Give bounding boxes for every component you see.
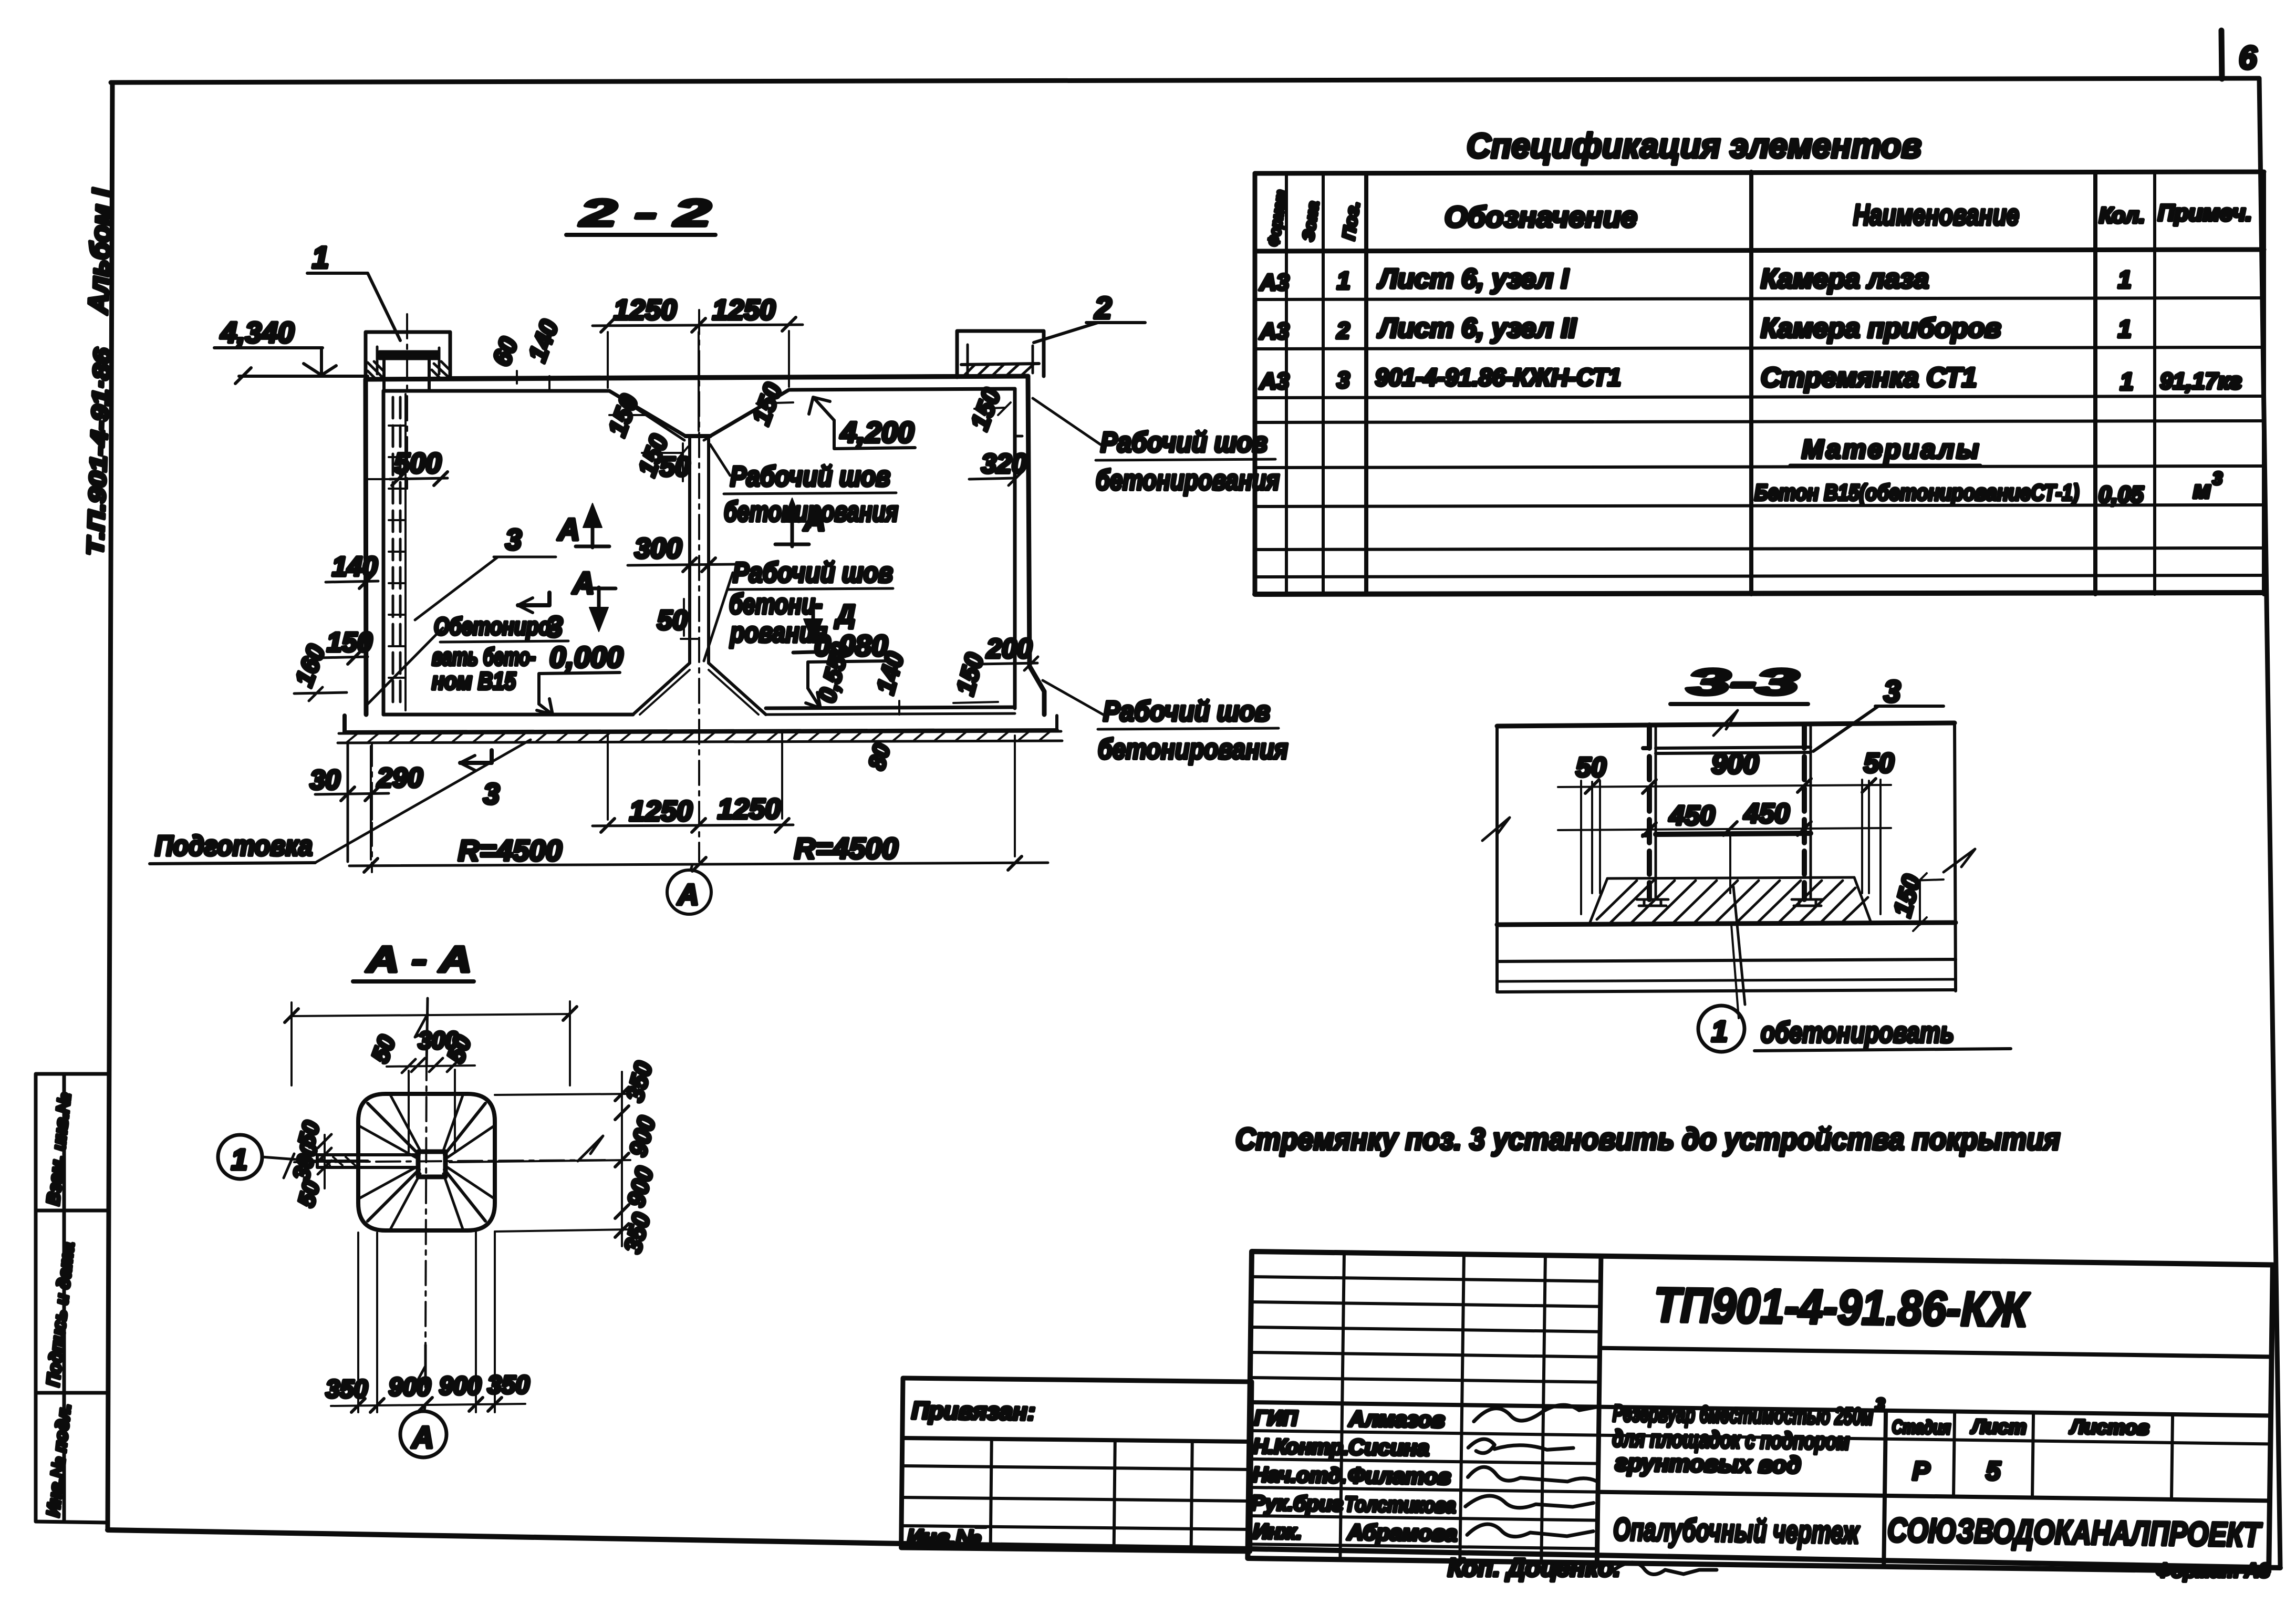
svg-text:Толстикова: Толстикова xyxy=(1344,1493,1456,1517)
svg-text:200: 200 xyxy=(986,634,1032,664)
break mark top xyxy=(1713,710,1738,736)
svg-text:900: 900 xyxy=(624,1113,660,1160)
svg-text:901-4-91.86-КЖН-СТ1: 901-4-91.86-КЖН-СТ1 xyxy=(1375,364,1621,391)
title block vertical lines xyxy=(1340,1253,1545,1562)
svg-text:0,05: 0,05 xyxy=(2098,482,2144,508)
svg-text:160: 160 xyxy=(290,641,331,690)
svg-text:3-3: 3-3 xyxy=(1687,661,1799,702)
roof slab top line xyxy=(366,376,1028,379)
extension verticals left/right xyxy=(1581,780,1881,914)
svg-text:обетонировать: обетонировать xyxy=(1761,1016,1954,1049)
svg-text:3: 3 xyxy=(1884,675,1900,709)
svg-text:1250: 1250 xyxy=(712,294,775,326)
svg-text:R=4500: R=4500 xyxy=(794,832,898,865)
svg-text:Инж.: Инж. xyxy=(1253,1520,1302,1544)
svg-text:1: 1 xyxy=(2118,315,2132,343)
left wall inner xyxy=(382,391,386,715)
svg-text:Камера приборов: Камера приборов xyxy=(1761,313,2001,344)
svg-text:50: 50 xyxy=(366,1031,401,1066)
svg-text:900: 900 xyxy=(439,1372,481,1400)
svg-text:900: 900 xyxy=(621,1164,658,1210)
ladder protruding in plan xyxy=(317,1155,418,1167)
svg-text:1250: 1250 xyxy=(614,294,677,326)
svg-text:А: А xyxy=(557,513,580,547)
title block outer frame xyxy=(1248,1251,2272,1571)
left manhole (камера лаза) xyxy=(366,332,450,379)
callout circle 1 A-A xyxy=(218,1135,262,1179)
svg-text:150: 150 xyxy=(951,650,989,698)
svg-text:А: А xyxy=(572,566,595,601)
svg-text:рования: рования xyxy=(729,617,827,648)
svg-text:А3: А3 xyxy=(1259,368,1289,394)
wall left edge xyxy=(1495,726,1499,992)
svg-text:3: 3 xyxy=(505,523,522,556)
svg-text:Обетониро-: Обетониро- xyxy=(434,613,557,640)
svg-text:Инв.№ подл.: Инв.№ подл. xyxy=(43,1403,75,1518)
svg-text:Лист: Лист xyxy=(1970,1416,2027,1439)
svg-text:Взам. инв.№: Взам. инв.№ xyxy=(43,1092,75,1206)
svg-text:1250: 1250 xyxy=(718,793,781,825)
break mark right xyxy=(1944,849,1975,872)
svg-text:м: м xyxy=(2193,476,2211,503)
svg-text:3: 3 xyxy=(1875,1395,1885,1414)
right wall inner xyxy=(1013,389,1017,708)
svg-text:вать бето-: вать бето- xyxy=(432,643,536,670)
svg-text:А3: А3 xyxy=(1259,270,1289,295)
svg-text:Рабочий шов: Рабочий шов xyxy=(730,461,890,492)
svg-text:Сисина: Сисина xyxy=(1348,1434,1429,1460)
svg-text:Спецификация элементов: Спецификация элементов xyxy=(1467,126,1921,165)
svg-text:ТП901-4-91.86-КЖ: ТП901-4-91.86-КЖ xyxy=(1654,1278,2030,1337)
niche floor line xyxy=(1607,877,1854,878)
svg-text:Рабочий шов: Рабочий шов xyxy=(1100,427,1268,458)
svg-text:Н.Контр.: Н.Контр. xyxy=(1253,1435,1349,1459)
svg-text:Стадия: Стадия xyxy=(1892,1416,1951,1438)
svg-text:2 - 2: 2 - 2 xyxy=(579,192,711,234)
svg-text:1: 1 xyxy=(231,1143,247,1176)
svg-text:350: 350 xyxy=(618,1210,655,1256)
roof slab inner second line xyxy=(450,375,957,377)
ladder embedded in wall (стремянка СТ1) xyxy=(392,397,394,709)
svg-text:3: 3 xyxy=(1337,367,1349,393)
slab lower lines xyxy=(1497,959,1956,961)
svg-text:Наименование: Наименование xyxy=(1853,198,2019,231)
svg-text:Альбом I: Альбом I xyxy=(83,188,118,316)
column footing plan outline xyxy=(358,1094,495,1230)
bottom dim 350 900 900 350 xyxy=(331,1404,525,1406)
cell line under big code xyxy=(1600,1348,2272,1357)
svg-text:Алмазов: Алмазов xyxy=(1348,1406,1445,1432)
svg-text:Формат А3: Формат А3 xyxy=(2156,1560,2270,1582)
rung weld marks xyxy=(1643,748,1649,835)
svg-text:Подпись и дата: Подпись и дата xyxy=(43,1241,78,1388)
svg-text:150: 150 xyxy=(327,627,372,658)
svg-text:Зона: Зона xyxy=(1300,200,1322,242)
svg-text:Нач.отд.: Нач.отд. xyxy=(1252,1463,1347,1487)
svg-text:R=4500: R=4500 xyxy=(458,834,562,867)
datum circle A xyxy=(667,870,711,914)
svg-text:50: 50 xyxy=(1576,752,1606,783)
axis break flag bottom xyxy=(413,1345,425,1389)
svg-text:900: 900 xyxy=(389,1373,431,1401)
right vertical dim 350 900 900 350 xyxy=(621,1072,623,1246)
svg-text:Рабочий шов: Рабочий шов xyxy=(1103,696,1270,727)
svg-text:1: 1 xyxy=(2120,368,2134,395)
svg-text:60: 60 xyxy=(488,334,524,370)
ladder stringer left xyxy=(1647,725,1652,899)
prep layer (подготовка) xyxy=(338,731,1062,743)
svg-text:Лист 6, узел I: Лист 6, узел I xyxy=(1377,264,1570,294)
left manhole axis xyxy=(406,314,408,489)
hatch niche floor xyxy=(1597,881,1868,923)
frame border right xyxy=(2259,78,2280,1568)
svg-text:Листов: Листов xyxy=(2069,1416,2149,1439)
svg-text:А3: А3 xyxy=(1259,318,1289,344)
svg-text:30: 30 xyxy=(310,765,340,795)
title block staff row lines xyxy=(1250,1402,2271,1415)
svg-text:Лист 6, узел II: Лист 6, узел II xyxy=(1377,313,1577,344)
svg-text:3: 3 xyxy=(2212,469,2222,489)
svg-text:2: 2 xyxy=(1336,318,1350,344)
niche chamfers xyxy=(1589,877,1871,924)
floor line left chamber xyxy=(383,713,633,717)
svg-text:грунтовых вод: грунтовых вод xyxy=(1615,1449,1801,1478)
svg-text:А: А xyxy=(411,1421,434,1455)
svg-text:Поз.: Поз. xyxy=(1338,200,1363,241)
spec table grid xyxy=(1255,172,2264,594)
svg-text:350: 350 xyxy=(487,1371,529,1399)
svg-text:450: 450 xyxy=(1669,801,1715,831)
svg-text:50: 50 xyxy=(660,452,690,482)
svg-text:0,000: 0,000 xyxy=(549,640,623,674)
column base haunch xyxy=(633,663,766,715)
svg-text:1: 1 xyxy=(1711,1015,1728,1048)
svg-text:Рабочий шов: Рабочий шов xyxy=(733,557,893,588)
svg-text:4,200: 4,200 xyxy=(840,416,914,449)
svg-text:Абрамова: Абрамова xyxy=(1347,1519,1458,1546)
frame border top xyxy=(111,78,2259,82)
svg-text:Обозначение: Обозначение xyxy=(1445,200,1637,233)
ladder rung top xyxy=(1656,747,1811,753)
svg-text:А - А: А - А xyxy=(366,939,472,980)
svg-text:Филатов: Филатов xyxy=(1348,1463,1451,1489)
svg-text:Примеч.: Примеч. xyxy=(2158,200,2252,226)
page number tick xyxy=(2221,30,2222,79)
wall top face line xyxy=(1497,723,1955,726)
svg-text:ном В15: ном В15 xyxy=(432,667,516,695)
svg-text:Стремянка СТ1: Стремянка СТ1 xyxy=(1761,363,1977,393)
left edge cut line below slab xyxy=(347,743,349,862)
svg-text:Инв.№: Инв.№ xyxy=(907,1525,981,1550)
svg-text:3: 3 xyxy=(483,777,500,810)
centerline vertical xyxy=(425,1056,427,1345)
svg-text:Подготовка: Подготовка xyxy=(155,830,313,862)
frame border bottom xyxy=(108,1530,2280,1568)
svg-text:1: 1 xyxy=(2118,266,2132,293)
section cut 3 upper xyxy=(518,593,549,605)
svg-text:Стремянку поз. 3 установить д: Стремянку поз. 3 установить до устройств… xyxy=(1235,1122,2060,1156)
svg-text:бетонирования: бетонирования xyxy=(1098,733,1288,765)
niche verticals xyxy=(1592,782,1869,893)
column core square xyxy=(418,1152,445,1177)
wall right edge xyxy=(1955,723,1956,991)
svg-text:Камера лаза: Камера лаза xyxy=(1761,264,1929,294)
axis break flag top xyxy=(415,998,428,1065)
svg-text:Кол.: Кол. xyxy=(2099,203,2145,227)
svg-text:450: 450 xyxy=(1743,799,1790,829)
stamp box left margin xyxy=(36,1074,108,1523)
svg-text:6: 6 xyxy=(2239,40,2257,76)
svg-text:1250: 1250 xyxy=(629,795,692,827)
ladder rung lower xyxy=(1656,833,1811,834)
svg-text:бетонирования: бетонирования xyxy=(724,496,898,527)
floor line right chamber with topping xyxy=(766,707,1015,708)
svg-text:900: 900 xyxy=(1711,748,1759,780)
datum circle A bottom xyxy=(400,1411,446,1457)
axis break flag right xyxy=(578,1136,603,1161)
svg-text:Привязан:: Привязан: xyxy=(911,1396,1035,1425)
svg-text:Д: Д xyxy=(834,599,855,629)
svg-text:Коп. Доценко.: Коп. Доценко. xyxy=(1448,1554,1620,1582)
right manhole (камера приборов) xyxy=(957,331,1044,377)
svg-text:4,340: 4,340 xyxy=(220,316,294,349)
central column xyxy=(690,436,709,663)
bottom slab xyxy=(345,716,1057,732)
slab top line full width xyxy=(1497,923,1956,925)
svg-text:Рук.бриг: Рук.бриг xyxy=(1251,1492,1343,1516)
signatures squiggles xyxy=(1474,1404,1600,1423)
svg-text:91,17кг: 91,17кг xyxy=(2160,368,2242,394)
svg-text:бетонирования: бетонирования xyxy=(1096,464,1280,496)
centerline horizontal xyxy=(294,1160,609,1162)
column axis xyxy=(698,310,700,862)
svg-text:А: А xyxy=(677,878,699,911)
frame border left xyxy=(108,82,112,1530)
svg-text:290: 290 xyxy=(377,763,423,793)
ladder stringer right xyxy=(1802,725,1807,899)
left wall outer xyxy=(366,379,366,715)
svg-text:Опалубочный чертеж: Опалубочный чертеж xyxy=(1613,1512,1861,1550)
svg-text:50: 50 xyxy=(1864,748,1894,779)
svg-text:300: 300 xyxy=(635,533,682,564)
svg-text:350: 350 xyxy=(326,1375,368,1403)
svg-text:1: 1 xyxy=(312,241,329,275)
svg-text:бетони-: бетони- xyxy=(729,588,823,620)
svg-text:Материалы: Материалы xyxy=(1802,434,1981,464)
svg-text:5: 5 xyxy=(1986,1456,2001,1485)
svg-text:СОЮЗВОДОКАНАЛПРОЕКТ: СОЮЗВОДОКАНАЛПРОЕКТ xyxy=(1887,1511,2263,1554)
corner haunch lines xyxy=(368,1103,485,1221)
svg-text:50: 50 xyxy=(293,1178,325,1209)
svg-text:2: 2 xyxy=(1094,291,1111,325)
svg-text:140: 140 xyxy=(524,316,564,366)
svg-text:80: 80 xyxy=(864,741,895,772)
top overall dim line xyxy=(292,1014,570,1016)
svg-text:ГИП: ГИП xyxy=(1254,1406,1298,1430)
привязан box xyxy=(901,1378,1252,1553)
svg-text:Р: Р xyxy=(1912,1456,1930,1486)
roof slab bottom line with haunches to column xyxy=(383,389,1015,436)
section cut 3 lower xyxy=(460,750,492,763)
svg-text:Бетон В15(обетонированиеСТ-1): Бетон В15(обетонированиеСТ-1) xyxy=(1754,480,2079,505)
title block upper small grid xyxy=(1250,1277,1601,1382)
break mark left xyxy=(1482,818,1510,841)
svg-text:1: 1 xyxy=(1337,267,1350,294)
svg-text:350: 350 xyxy=(620,1059,657,1105)
right wall outer xyxy=(1028,376,1044,715)
обетонировать callout circle 1 xyxy=(1698,1006,1744,1052)
